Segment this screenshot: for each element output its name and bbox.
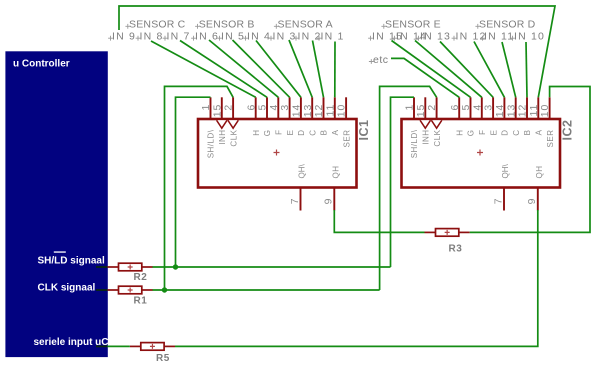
svg-text:IN 4: IN 4 [247, 31, 271, 43]
wire SH/LD riser to IC2 pin 1 [391, 97, 415, 267]
resistor R2 right lead [142, 266, 153, 268]
svg-text:IC2: IC2 [561, 120, 575, 141]
svg-text:CLK signaal: CLK signaal [38, 283, 96, 294]
resistor R2 left lead [108, 266, 119, 268]
svg-text:QH\: QH\ [501, 164, 510, 179]
svg-text:7: 7 [492, 198, 504, 205]
svg-text:SENSOR A: SENSOR A [278, 19, 333, 31]
svg-text:IN 1: IN 1 [321, 31, 345, 43]
svg-text:5: 5 [257, 104, 269, 111]
svg-text:F: F [275, 130, 284, 135]
IC2 pin 4 (F) stub [481, 97, 483, 120]
IC2 pin 13 (C) stub [515, 97, 517, 120]
svg-text:F: F [478, 130, 487, 135]
svg-text:H: H [252, 130, 261, 136]
IC2 pin 2 (CLK) stub [436, 97, 438, 120]
junction CLK at R1 line [162, 287, 167, 292]
wire IC2 QH down to serial line [175, 210, 538, 346]
resistor R5 origin cross [150, 344, 155, 349]
svg-text:SH/LD signaal: SH/LD signaal [38, 256, 105, 267]
svg-text:14: 14 [494, 104, 506, 117]
junction SH/LD at R2 line [173, 264, 178, 269]
wire IN 6 to IC1 input [209, 40, 278, 97]
svg-text:IN 13: IN 13 [420, 31, 451, 43]
IC2 pin 7 (QH\) stub [503, 187, 505, 211]
resistor R5 body [141, 343, 164, 351]
svg-text:11: 11 [324, 104, 336, 117]
wire etc to IC2 pin 6 [391, 58, 459, 97]
svg-text:6: 6 [245, 104, 257, 111]
IC2 pin 14 (D) stub [503, 97, 505, 120]
IC1 pin 5 (G) stub [266, 97, 268, 120]
IC1 pin 4 (F) stub [277, 97, 279, 120]
svg-text:SH/LD\: SH/LD\ [410, 129, 419, 158]
IC2 clock wedge at pin top edge [420, 120, 430, 128]
resistor R1 body [119, 286, 142, 294]
svg-text:10: 10 [336, 104, 348, 117]
IC2 clock wedge at pin top edge [431, 120, 441, 128]
IC1 pin 2 (CLK) stub [232, 97, 234, 120]
svg-text:SH/LD\: SH/LD\ [207, 129, 216, 158]
wire SH/LD net inside controller [96, 266, 108, 268]
svg-text:9: 9 [526, 198, 538, 205]
wire IN 7 to IC1 input [180, 41, 267, 98]
svg-text:IN 3: IN 3 [273, 31, 297, 43]
svg-text:4: 4 [268, 104, 280, 111]
svg-text:IN 11: IN 11 [484, 31, 514, 43]
wire R3 to IC2 SER pin 10 [470, 87, 590, 233]
wire IN 15 to IC2 input [392, 41, 471, 98]
svg-text:CLK: CLK [433, 129, 442, 146]
IC1 pin 12 (B) stub [323, 97, 325, 120]
svg-text:B: B [320, 130, 329, 136]
svg-text:SER: SER [546, 130, 555, 148]
resistor R2 origin cross [128, 265, 133, 270]
IC1 pin 13 (C) stub [311, 97, 313, 120]
svg-text:E: E [489, 130, 498, 136]
svg-text:u Controller: u Controller [13, 59, 70, 70]
svg-text:14: 14 [291, 104, 303, 117]
svg-text:IN 2: IN 2 [298, 31, 322, 43]
svg-text:D: D [501, 129, 510, 135]
svg-text:etc: etc [373, 54, 389, 66]
IC2 pin 15 (INH) stub [424, 97, 426, 120]
svg-text:B: B [523, 130, 532, 136]
wire CLK riser to IC2 pin 2 [380, 86, 437, 290]
svg-text:1: 1 [200, 104, 212, 111]
resistor R3 body [436, 229, 459, 237]
IC1 pin 3 (E) stub [289, 97, 291, 120]
resistor R5 left lead [130, 345, 141, 347]
svg-text:13: 13 [505, 104, 517, 117]
svg-text:1: 1 [404, 104, 416, 111]
svg-text:INH: INH [422, 130, 431, 145]
svg-text:SENSOR E: SENSOR E [385, 19, 441, 31]
svg-text:SER: SER [342, 130, 351, 148]
svg-text:INH: INH [218, 130, 227, 145]
resistor R1 right lead [142, 289, 153, 291]
wire IN 5 to IC1 input [233, 40, 290, 97]
wire IC1 QH to R3 [334, 210, 424, 232]
IC2 pin 1 (SH/LD\) stub [413, 97, 415, 120]
IC2 pin 12 (B) stub [526, 97, 528, 120]
svg-text:H: H [455, 130, 464, 136]
svg-text:7: 7 [289, 198, 301, 205]
IC1 pin 6 (H) stub [255, 97, 257, 120]
IC1 pin 7 (QH\) stub [300, 187, 302, 211]
IC1 clock wedge at pin top edge [228, 120, 238, 128]
svg-text:QH\: QH\ [298, 164, 307, 179]
op-amp IC2 body (74HC165 shift register box) [402, 119, 561, 188]
wire serial net inside controller [96, 345, 108, 347]
wire SH/LD net horizontal from R2 to IC2 riser [153, 266, 391, 268]
IC1 pin 1 (SH/LD\) stub [210, 97, 212, 120]
svg-text:2: 2 [223, 104, 235, 111]
u Controller block [5, 51, 107, 357]
svg-text:R1: R1 [134, 295, 148, 306]
svg-text:3: 3 [279, 104, 291, 111]
IC2 origin cross [477, 150, 483, 156]
IC2 pin 5 (G) stub [470, 97, 472, 120]
resistor R1 origin cross [128, 288, 133, 293]
svg-text:IN 5: IN 5 [221, 31, 245, 43]
svg-text:5: 5 [460, 104, 472, 111]
wire CLK net horizontal from R1 to IC2 riser [153, 289, 380, 291]
svg-text:C: C [308, 130, 317, 136]
IC1 origin cross [274, 150, 280, 156]
svg-text:IN 9: IN 9 [112, 31, 136, 43]
svg-text:SENSOR D: SENSOR D [479, 19, 536, 31]
resistor R2 body [119, 263, 142, 271]
svg-text:11: 11 [528, 104, 540, 117]
svg-text:QH: QH [535, 166, 544, 179]
svg-text:13: 13 [302, 104, 314, 117]
svg-text:12: 12 [517, 104, 529, 117]
IC1 pin 10 (SER) stub [345, 97, 347, 120]
svg-text:C: C [512, 130, 521, 136]
svg-text:A: A [331, 129, 340, 135]
IC1 clock wedge at pin top edge [217, 120, 227, 128]
wire IN 14 to IC2 input [415, 41, 482, 98]
svg-text:15: 15 [415, 104, 427, 117]
svg-text:R3: R3 [449, 244, 463, 255]
svg-text:seriele input uC: seriele input uC [34, 337, 109, 348]
wire IN 13 to IC2 input [440, 42, 493, 98]
resistor R3 left lead [425, 231, 436, 233]
svg-text:IC1: IC1 [357, 120, 371, 141]
wire IN 10 to IC2 input [526, 42, 527, 97]
svg-text:IN 8: IN 8 [140, 31, 164, 43]
svg-text:IN 7: IN 7 [167, 31, 191, 43]
svg-text:G: G [467, 130, 476, 137]
wire IN 12 to IC2 input [474, 42, 504, 98]
svg-text:IN 12: IN 12 [456, 31, 487, 43]
svg-text:R5: R5 [156, 353, 170, 364]
SH/LD overline [54, 251, 66, 252]
wire CLK riser to IC1 pin 2 [165, 86, 234, 290]
svg-text:CLK: CLK [229, 129, 238, 146]
resistor R5 right lead [164, 345, 175, 347]
IC1 pin 14 (D) stub [300, 97, 302, 120]
svg-text:15: 15 [211, 104, 223, 117]
svg-text:4: 4 [471, 104, 483, 111]
IC2 pin 10 (SER) stub [549, 97, 551, 120]
svg-text:IN 10: IN 10 [514, 31, 545, 43]
svg-text:QH: QH [332, 166, 341, 179]
resistor R3 origin cross [445, 230, 450, 235]
wire IN 8 to IC1 input [151, 41, 256, 97]
wire IN 9 net: label up, along top, down to IC2 pin 11 [119, 6, 555, 97]
wire IN 2 to IC1 input [313, 41, 324, 98]
wire SH/LD riser to IC1 pin 1 [176, 97, 211, 267]
svg-text:SENSOR C: SENSOR C [129, 19, 186, 31]
svg-text:A: A [535, 129, 544, 135]
svg-text:9: 9 [323, 198, 335, 205]
IC1 pin 9 (QH) stub [333, 187, 335, 211]
op-amp IC1 body (74HC165 shift register box) [198, 119, 357, 188]
svg-text:SENSOR B: SENSOR B [199, 19, 255, 31]
wire IN 4 to IC1 input [256, 41, 301, 98]
resistor R3 right lead [459, 231, 470, 233]
wire CLK net inside controller [96, 289, 108, 291]
IC1 pin 11 (A) stub [334, 97, 336, 120]
svg-text:6: 6 [449, 104, 461, 111]
IC1 pin 15 (INH) stub [221, 97, 223, 120]
IC2 pin 9 (QH) stub [537, 187, 539, 211]
IC2 pin 6 (H) stub [458, 97, 460, 120]
wire IN 3 to IC1 input [289, 40, 312, 97]
wire serial line from controller to R5 [108, 345, 130, 347]
svg-text:G: G [263, 130, 272, 137]
svg-text:IN 6: IN 6 [195, 31, 219, 43]
svg-text:D: D [297, 130, 306, 136]
IC2 pin 11 (A) stub [537, 97, 539, 120]
resistor R1 left lead [108, 289, 119, 291]
wire IN 1 to IC1 input [334, 42, 336, 98]
svg-text:R2: R2 [134, 272, 148, 283]
svg-text:E: E [286, 130, 295, 136]
svg-text:10: 10 [539, 104, 551, 117]
svg-text:2: 2 [426, 104, 438, 111]
wire IN 11 to IC2 input [502, 42, 516, 97]
svg-text:3: 3 [483, 104, 495, 111]
IC2 pin 3 (E) stub [492, 97, 494, 120]
svg-text:12: 12 [313, 104, 325, 117]
